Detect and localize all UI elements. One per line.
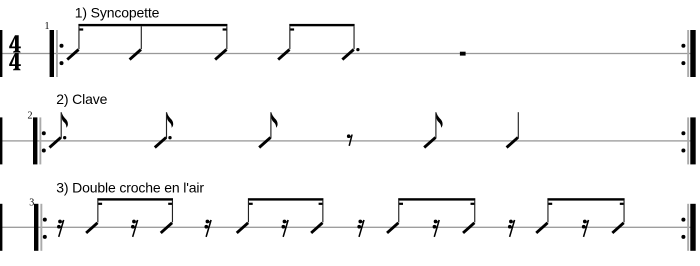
svg-text:1) Syncopette: 1) Syncopette (75, 5, 160, 21)
svg-text:3) Double croche en l'air: 3) Double croche en l'air (56, 180, 204, 196)
svg-text:1: 1 (45, 21, 50, 32)
svg-text:3: 3 (29, 198, 34, 209)
svg-text:2) Clave: 2) Clave (56, 91, 107, 107)
svg-text:2: 2 (28, 111, 33, 122)
